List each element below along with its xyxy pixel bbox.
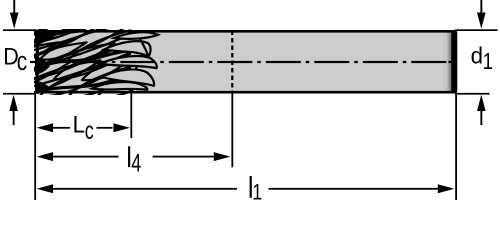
extension line below body at cutter start x=35: [34, 95, 36, 201]
svg-text:c: c: [85, 116, 94, 145]
top corner filler leaves: [0, 1, 61, 45]
flutes (cutting part) braid texture: [0, 1, 187, 102]
body outline: top edge: [35, 30, 458, 33]
extension line below body at l4 end x=232: [231, 94, 233, 168]
filler arcs between leaf rows: [34, 18, 128, 50]
centerline (dash-dot): [30, 61, 453, 63]
Dc top arrow: [10, 0, 19, 29]
d1 top arrow: [477, 0, 486, 29]
d1 label: [471, 42, 493, 74]
svg-text:c: c: [17, 47, 28, 76]
flute run-out tips: [92, 32, 158, 92]
body outline: right edge (shank end, rounded): [451, 34, 457, 91]
row 2 middle leaves: [0, 37, 61, 81]
shank end face shaded band: [442, 31, 452, 93]
body outline: bottom edge: [35, 91, 458, 94]
row 3 lower leaves: [0, 55, 75, 99]
Lc label: [73, 110, 94, 144]
steep back-edge crossing strokes: [132, 62, 138, 91]
d1 bottom extension line: [455, 93, 490, 95]
lower small runout leaf: [92, 82, 147, 90]
extension line below body at flute end x=131: [130, 92, 132, 138]
Dc top extension line: [3, 29, 36, 31]
svg-text:4: 4: [131, 149, 141, 178]
Dc bottom extension line: [3, 93, 36, 95]
row 1 upper leaves: [0, 19, 75, 63]
Dc label: [3, 42, 27, 75]
svg-text:1: 1: [483, 48, 493, 75]
tool body (shank): [35, 30, 455, 94]
middle runout leaf: [100, 56, 157, 68]
svg-text:d: d: [471, 42, 483, 69]
Lc dimension line: [37, 123, 130, 132]
d1 bottom arrow: [477, 95, 486, 125]
d1 top extension line: [455, 29, 498, 31]
rope boundary emphasis bands: [36, 50, 134, 66]
l4 label: [128, 146, 141, 177]
l4 dimension line: [37, 152, 231, 161]
lower big runout leaf: [102, 69, 154, 85]
svg-text:1: 1: [252, 181, 262, 205]
upper V tip leaf: [104, 41, 151, 56]
l4 position dashed line through body: [231, 31, 233, 94]
svg-text:L: L: [73, 110, 85, 137]
dark wedges at cutting end: [35, 30, 54, 45]
l1 label: [250, 176, 263, 205]
l1 dimension line: [37, 184, 455, 193]
upper thin top leaf: [114, 32, 158, 39]
Dc bottom arrow: [9, 95, 18, 125]
extension line below body at shank end x=456: [455, 95, 457, 201]
body outline: left edge (cutting end): [36, 30, 39, 94]
